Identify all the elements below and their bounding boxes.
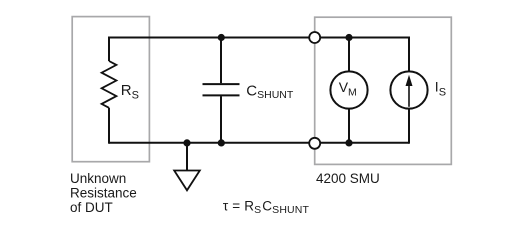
- wire: bottom bus from DUT to current source: [109, 142, 409, 144]
- capacitor CSHUNT bottom plate: [203, 94, 240, 96]
- wire: IS bottom stem: [408, 108, 410, 144]
- capacitor CSHUNT top plate: [203, 83, 240, 85]
- wire: IS top stem: [408, 37, 410, 73]
- wire: top bus from DUT to current source: [109, 37, 409, 39]
- wire: left vertical segment above resistor: [108, 37, 110, 62]
- junction dot: cap top: [218, 34, 225, 41]
- svg-text:Unknown: Unknown: [70, 171, 126, 186]
- current source arrowhead: [406, 75, 413, 86]
- 4200 SMU enclosure box (gray): [315, 17, 452, 164]
- terminal circle: bottom (on SMU box edge): [309, 138, 320, 149]
- wire: ground stem: [186, 143, 188, 170]
- resistor RS zigzag: [102, 61, 117, 108]
- wire: capacitor bottom stem: [220, 96, 222, 144]
- current source arrow shaft: [408, 84, 410, 107]
- junction dot: cap bottom: [218, 139, 225, 146]
- wire: VM top stem: [348, 37, 350, 73]
- wire: capacitor top stem: [220, 37, 222, 84]
- wire: left vertical segment below resistor: [108, 108, 110, 144]
- svg-text:of DUT: of DUT: [70, 200, 113, 215]
- svg-text:Resistance: Resistance: [70, 186, 137, 201]
- wire: VM bottom stem: [348, 108, 350, 144]
- svg-text:4200 SMU: 4200 SMU: [316, 171, 380, 186]
- junction dot: VM bottom: [345, 139, 352, 146]
- current source IS circle: [390, 71, 427, 108]
- ground symbol triangle: [174, 171, 200, 191]
- voltmeter VM circle: [330, 71, 367, 108]
- junction dot: VM top: [345, 34, 352, 41]
- junction dot: ground at bottom bus: [183, 139, 190, 146]
- DUT enclosure box (gray): [72, 17, 149, 162]
- terminal circle: top (on SMU box edge): [309, 32, 320, 43]
